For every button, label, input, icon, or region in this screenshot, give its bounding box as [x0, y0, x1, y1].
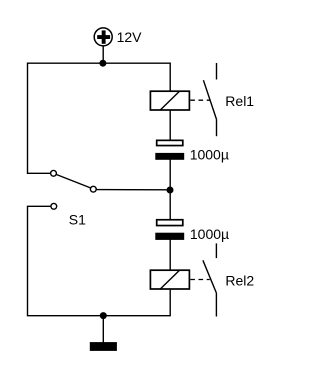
- svg-text:1000µ: 1000µ: [190, 226, 229, 242]
- upper throw terminal: [51, 170, 57, 176]
- svg-text:S1: S1: [69, 212, 86, 228]
- wire Rel1 coil to capacitor C1: [169, 111, 171, 141]
- relay coil Rel1: [150, 91, 189, 111]
- contact Rel2: [203, 243, 217, 316]
- power supply +12V symbol: [94, 28, 112, 46]
- ground: [90, 316, 117, 351]
- svg-text:Rel2: Rel2: [225, 272, 254, 288]
- capacitor C2 (electrolytic 1000µ): [155, 220, 184, 240]
- common terminal: [90, 186, 96, 192]
- junction top: [99, 60, 106, 67]
- wire left rail upper: [28, 63, 51, 174]
- wire switch common to junction: [96, 189, 170, 191]
- contact Rel1: [203, 63, 216, 136]
- svg-text:1000µ: 1000µ: [190, 146, 229, 162]
- wire C1 to junction to C2: [169, 159, 171, 219]
- capacitor C1 (electrolytic 1000µ): [155, 140, 184, 159]
- relay coil Rel2: [150, 270, 189, 290]
- lower throw terminal: [51, 203, 57, 209]
- junction middle: [167, 187, 174, 194]
- svg-text:12V: 12V: [117, 29, 143, 45]
- lever: [56, 175, 90, 188]
- wire C2 to Rel2 coil: [169, 240, 171, 271]
- wire top rail: [28, 63, 171, 91]
- dashed link Rel2: [190, 279, 210, 281]
- wire left rail lower: [28, 206, 171, 315]
- svg-text:Rel1: Rel1: [225, 93, 254, 109]
- junction bottom: [100, 312, 107, 319]
- dashed link Rel1: [190, 99, 209, 101]
- wire supply to top rail: [102, 46, 104, 63]
- switch S1: [51, 170, 97, 209]
